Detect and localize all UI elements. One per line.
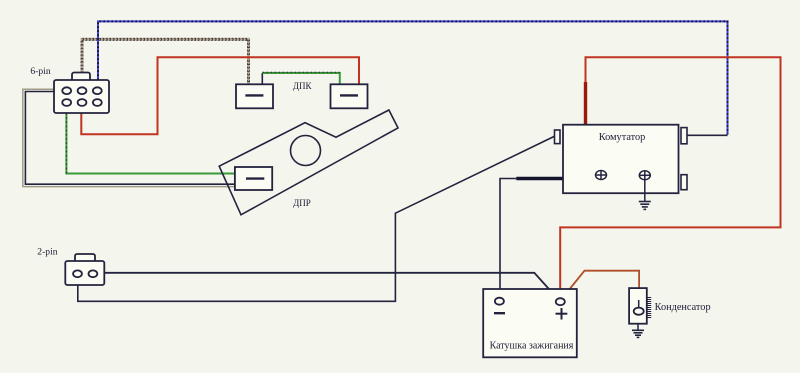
6-pin contacts	[62, 87, 71, 94]
wire green from 6-pin bottom to DPR sensor	[66, 113, 235, 174]
distributor body outline	[219, 110, 398, 215]
condenser terminal	[634, 308, 644, 315]
wire red power loop from commutator top to coil +	[560, 57, 780, 298]
commutator upper right tab	[681, 128, 687, 144]
wire brown from coil + to condenser	[562, 271, 639, 299]
wire pair (grey+black) from 6-pin left to DPR sensor	[23, 89, 235, 186]
svg-text:Комутатор: Комутатор	[599, 132, 646, 143]
6-pin connector body	[54, 73, 109, 114]
commutator left tab	[555, 130, 561, 144]
wire black diagonal from 2-pin bottom wire to commutator left tab	[78, 136, 555, 301]
commutator screw right	[639, 171, 650, 180]
right DPK sensor	[331, 84, 368, 108]
2-pin contacts	[73, 270, 82, 277]
commutator body	[555, 125, 688, 194]
plus sign	[556, 308, 568, 320]
ground symbol condenser	[632, 330, 644, 337]
wire black from 2-pin right to coil +	[104, 273, 558, 299]
wire black from commutator left to coil minus	[500, 179, 563, 299]
svg-text:Конденсатор: Конденсатор	[655, 302, 711, 313]
ground symbol commutator	[639, 202, 651, 210]
svg-text:2-pin: 2-pin	[37, 246, 57, 257]
svg-text:6-pin: 6-pin	[30, 66, 50, 77]
commutator lower right tab	[681, 175, 687, 190]
ignition coil body	[483, 289, 577, 357]
wire W2 white-black pair from 6-pin tab to left DPK sensor	[82, 39, 249, 84]
commutator screw left	[596, 171, 607, 180]
distributor shaft circle	[291, 136, 321, 166]
DPR sensor	[235, 167, 272, 190]
2-pin connector body	[65, 254, 104, 285]
wire blue/black from 6-pin top to commutator right tab	[98, 21, 728, 135]
left DPK sensor	[236, 84, 273, 108]
condenser ground wire	[637, 324, 639, 330]
condenser body	[629, 288, 651, 324]
wire green link between DPK sensors	[262, 72, 340, 84]
coil terminal plus	[556, 298, 565, 305]
commutator ground wire	[644, 180, 646, 202]
coil terminal minus	[495, 298, 504, 305]
svg-text:ДПК: ДПК	[293, 81, 313, 91]
condenser clamp hatch	[647, 298, 651, 318]
wire red from 6-pin bottom to right DPK sensor	[81, 57, 359, 134]
svg-text:Катушка зажигания: Катушка зажигания	[490, 340, 574, 351]
minus sign	[494, 312, 505, 314]
svg-text:ДПР: ДПР	[293, 198, 311, 208]
